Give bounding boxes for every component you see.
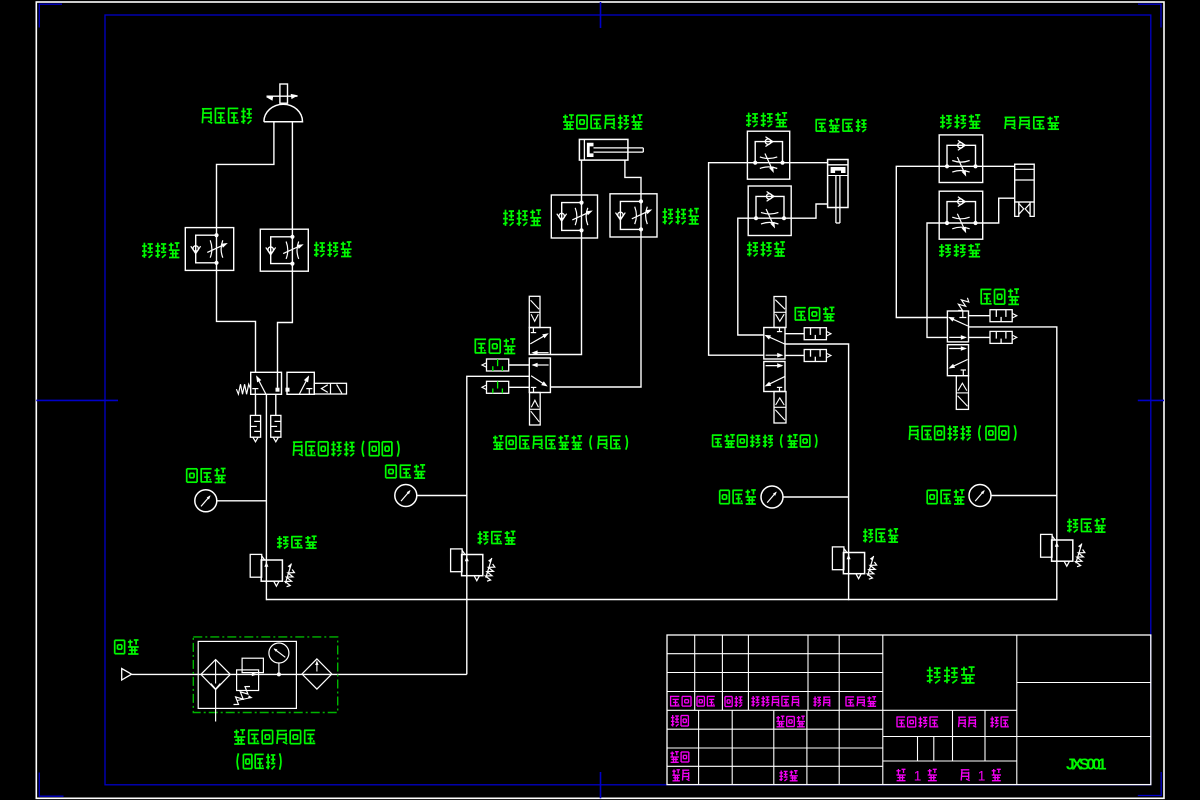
wire SV5 to C3 top port xyxy=(790,162,828,164)
rotation arrow left xyxy=(266,96,273,101)
solenoid valve V4 body (手指电磁阀 单电) xyxy=(947,311,968,342)
muffler M8 (c4 lower) xyxy=(990,331,1012,343)
label 调速阀 c2-left xyxy=(503,210,541,226)
label 压力表 c2 xyxy=(386,465,426,479)
wire V1 exhaust to muffler M2 xyxy=(275,394,277,415)
label 阶段标记 xyxy=(896,717,938,728)
label 左右运行气缸 xyxy=(563,115,643,130)
wire C2 head port to SV3 xyxy=(581,160,583,195)
pressure gauge G1 xyxy=(195,490,217,512)
label 气路图 xyxy=(927,667,975,684)
label 第 1 张 xyxy=(961,769,1001,784)
muffler M3 (c2 upper) xyxy=(487,359,509,371)
return spring of valve V4 xyxy=(958,298,969,311)
wire dome-left to speed valve SV1 xyxy=(217,122,274,228)
solenoid valve V2 body (左右运行电磁阀 双电) xyxy=(529,328,550,355)
speed valve SV5 (c3 upper) xyxy=(747,131,789,179)
speed valve SV7 (c4 upper) xyxy=(939,135,983,183)
label 签名 xyxy=(813,696,830,706)
label 比例 xyxy=(990,717,1008,728)
solenoid valve V1 body (回转电磁阀 单电) xyxy=(251,372,282,394)
svg-text:JXS001: JXS001 xyxy=(1066,757,1107,774)
cylinder C3 (升降气缸) xyxy=(828,160,848,208)
return spring of V1 xyxy=(236,384,250,394)
label 消音器 c4 xyxy=(981,289,1020,305)
wire V1 exhaust to muffler M1 xyxy=(255,394,257,415)
wire SV5 to valve V3 xyxy=(709,163,764,356)
pressure gauge G2 xyxy=(395,485,417,507)
label 消音器 c3 xyxy=(795,307,835,321)
mini gauge in air unit xyxy=(269,643,289,663)
supply manifold xyxy=(266,599,1056,601)
label 左右运行电磁阀（双电） xyxy=(493,435,627,449)
centering mark top xyxy=(600,2,602,28)
speed valve SV1 (c1 left) xyxy=(185,228,233,271)
label 调速阀 c3-bottom xyxy=(747,242,785,257)
solenoid valve V3 body (升降电磁阀 双电) xyxy=(764,328,785,360)
wire SV3 to valve V2 xyxy=(550,238,581,355)
label 调压阀 c4 xyxy=(1067,519,1106,533)
muffler M1 (c1) xyxy=(250,415,260,437)
label 升降电磁阀（双电） xyxy=(712,434,817,447)
wire SV4 to valve V2 xyxy=(550,237,641,387)
muffler M4 (c2 lower) xyxy=(487,381,509,393)
label 调速阀 c1-left xyxy=(142,243,180,258)
label 升降气缸 xyxy=(816,119,867,132)
pneumatic gripper (气动手指) xyxy=(1015,164,1034,202)
label 标记 xyxy=(670,696,691,706)
wire SV8 to gripper xyxy=(983,198,1015,223)
lubricator xyxy=(302,659,332,689)
label 调压阀 c2 xyxy=(478,531,516,544)
label 气源 xyxy=(115,640,139,654)
label 回转电磁阀（单电） xyxy=(293,441,399,457)
filter with water trap xyxy=(201,660,230,690)
supply line to valve V3 xyxy=(785,344,849,600)
corner mark top-right xyxy=(1138,4,1161,27)
corner mark bottom-left xyxy=(39,773,63,797)
label 压力表 c3 xyxy=(720,490,756,504)
wire SV6 to C3 bottom port xyxy=(791,204,827,218)
wire V3 to muffler M6 xyxy=(785,354,804,356)
corner mark bottom-right xyxy=(1138,772,1161,796)
wire SV8 to valve V4 xyxy=(927,223,947,337)
wire V2 to muffler M4 xyxy=(509,386,530,388)
supply riser circuit 1 xyxy=(265,394,267,600)
pressure gauge G4 xyxy=(969,485,991,507)
label 压力表 c4 xyxy=(927,490,964,504)
wire SV2 to valve V1 port B xyxy=(278,271,293,388)
wire gauge G3 tee xyxy=(783,496,849,498)
svg-text:1: 1 xyxy=(978,769,986,784)
speed valve SV8 (c4 lower) xyxy=(939,191,983,239)
cylinder C2 (左右运行气缸) xyxy=(579,139,628,160)
air unit enclosure (dash-dot) xyxy=(193,637,337,713)
speed valve SV2 (c1 right) xyxy=(260,229,308,271)
label 分区 xyxy=(725,696,742,707)
label 调速阀 c4-bottom xyxy=(939,244,980,257)
wire gauge G4 tee xyxy=(991,495,1057,497)
label 调速阀 c4-top xyxy=(940,115,980,129)
pressure regulator R1 xyxy=(250,554,262,577)
bottom solenoid of valve V4 xyxy=(956,376,968,410)
label 气源处理组合 xyxy=(234,730,315,744)
wire dome-right to speed valve SV2 xyxy=(291,122,293,230)
air supply line xyxy=(132,673,467,675)
muffler M6 (c3 lower) xyxy=(804,350,826,362)
label 调压阀 c1 xyxy=(277,536,317,549)
bottom solenoid of valve V2 xyxy=(530,393,541,426)
mini regulator in air unit xyxy=(242,658,263,672)
label 调速阀 c1-right xyxy=(314,242,352,257)
corner mark top-left xyxy=(39,4,62,27)
rotation arrow right xyxy=(291,94,298,99)
label 气动手指 xyxy=(1005,117,1060,130)
label 消音器 c2 xyxy=(475,339,516,354)
pressure regulator R2 xyxy=(451,549,463,572)
label 标准化 xyxy=(776,716,805,727)
label 调速阀 c3-top xyxy=(746,113,787,127)
speed valve SV4 (c2 right) xyxy=(610,194,657,237)
label 重量 xyxy=(958,717,976,727)
solenoid coil of V1 xyxy=(314,383,346,394)
wire V4 to muffler M8 xyxy=(969,336,991,338)
label 批准 xyxy=(779,771,797,782)
label 审核 xyxy=(670,752,688,763)
label 回转气缸 xyxy=(202,108,252,124)
air unit inner box xyxy=(198,641,296,708)
centering mark bottom xyxy=(600,772,602,798)
rotary cylinder rotation line xyxy=(267,95,298,97)
wire gauge G1 tee xyxy=(217,500,267,502)
rotary cylinder dome xyxy=(264,104,303,122)
title block grid xyxy=(667,635,1151,785)
wire SV7 to gripper xyxy=(983,165,1015,167)
svg-text:1: 1 xyxy=(914,769,922,784)
muffler M2 (c1) xyxy=(271,415,281,437)
rotary cylinder shaft xyxy=(280,84,288,103)
muffler M5 (c3 upper) xyxy=(804,328,826,340)
pressure gauge G3 xyxy=(761,486,783,508)
centering mark right xyxy=(1138,399,1164,401)
top solenoid of valve V2 xyxy=(529,296,540,327)
bottom solenoid of valve V3 xyxy=(774,392,786,424)
wire C2 rod port to SV4 xyxy=(625,160,641,194)
wire V3 to muffler M5 xyxy=(785,333,804,335)
label 工艺 xyxy=(672,770,689,781)
speed valve SV6 (c3 lower) xyxy=(748,186,791,236)
wire SV7 to valve V4 xyxy=(896,166,947,317)
top solenoid of valve V3 xyxy=(774,297,786,328)
label 处数 xyxy=(697,696,715,706)
wire gauge G2 tee xyxy=(417,495,467,497)
label 调速阀 c2-right xyxy=(663,208,699,224)
wire SV1 to valve V1 port A xyxy=(217,270,256,372)
wire SV6 to valve V3 xyxy=(738,218,764,335)
supply line to valve V4 xyxy=(969,327,1057,600)
centering mark left xyxy=(36,399,118,401)
label 压力表 c1 xyxy=(187,468,226,482)
pressure regulator R3 xyxy=(832,547,844,570)
muffler M7 (c4 upper) xyxy=(990,310,1012,322)
label 手指电磁阀（单电） xyxy=(909,425,1016,440)
label 调压阀 c3 xyxy=(863,529,898,543)
label 共 1 张 xyxy=(896,769,937,784)
air source symbol (气源) xyxy=(122,669,132,681)
wire V2 to muffler M3 xyxy=(509,364,530,366)
label 更改文件号 xyxy=(751,696,799,707)
speed valve SV3 (c2 left) xyxy=(551,195,597,238)
pressure regulator R4 xyxy=(1041,534,1053,557)
label 年月日 xyxy=(845,696,876,706)
label （三联体） xyxy=(237,753,281,769)
label 设计 xyxy=(671,715,689,727)
supply line to valve V2 xyxy=(467,376,530,674)
wire V4 to muffler M7 xyxy=(969,315,991,317)
